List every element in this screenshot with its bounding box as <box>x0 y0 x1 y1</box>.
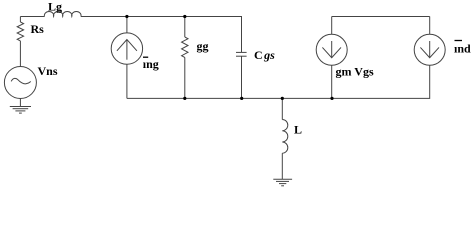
svg-text:ıng: ıng <box>143 57 159 71</box>
svg-text:Cgs: Cgs <box>254 48 275 62</box>
svg-text:Lg: Lg <box>48 0 62 14</box>
svg-text:gg: gg <box>197 39 209 53</box>
svg-text:Vns: Vns <box>38 64 58 78</box>
svg-text:ınd: ınd <box>454 42 471 56</box>
svg-text:L: L <box>294 123 302 137</box>
svg-text:Rs: Rs <box>31 22 45 36</box>
svg-text:gm Vgs: gm Vgs <box>336 65 374 79</box>
